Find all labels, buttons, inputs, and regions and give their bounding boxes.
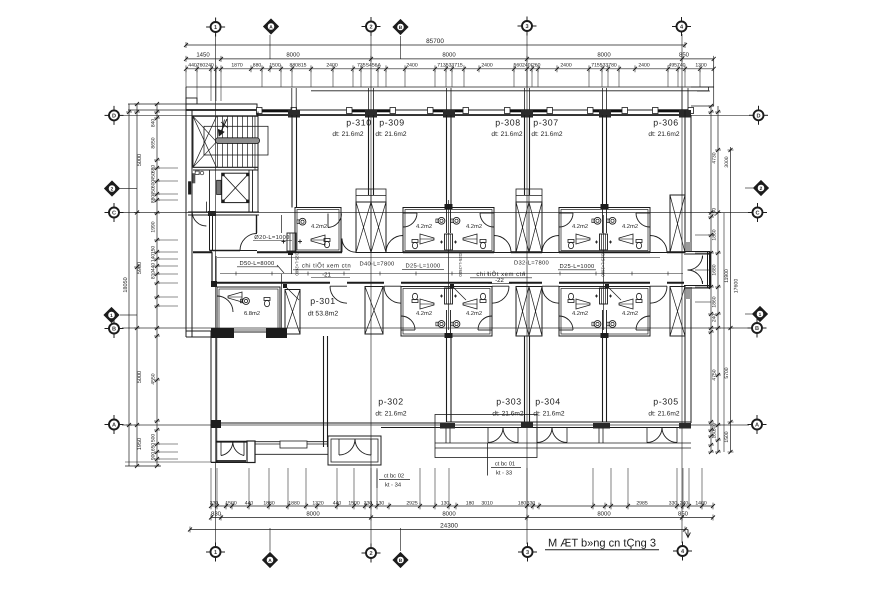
svg-text:2400: 2400 xyxy=(326,63,337,69)
svg-text:1990: 1990 xyxy=(151,221,157,232)
svg-text:1880: 1880 xyxy=(288,500,299,506)
grid bubble C left xyxy=(109,208,119,218)
corridor pipe run line upper xyxy=(217,257,660,259)
svg-text:D32-L=7800: D32-L=7800 xyxy=(514,260,549,267)
top exterior wall outer line xyxy=(186,104,691,110)
duct shaft top at grid 3 xyxy=(516,202,542,253)
svg-text:chi tiÕt xem ctn: chi tiÕt xem ctn xyxy=(476,270,525,278)
svg-text:2925: 2925 xyxy=(406,500,417,506)
svg-text:B: B xyxy=(112,327,116,333)
party wall stubs above top wall xyxy=(291,88,293,110)
grid line axis B vertical xyxy=(400,36,402,59)
dimension line right inner chain xyxy=(710,106,712,452)
svg-text:C: C xyxy=(755,211,759,217)
svg-text:A: A xyxy=(269,24,273,30)
door jamb above p-301 hall door xyxy=(256,215,258,233)
pipe stub top pair 2 xyxy=(601,204,609,209)
svg-text:240: 240 xyxy=(712,208,718,217)
vertical pipe riser at x448.5 xyxy=(448,200,450,330)
bathroom 6.8m2 toilet xyxy=(264,298,270,301)
corridor pipe run line xyxy=(220,273,683,275)
french door p-303 bottom xyxy=(488,428,503,443)
dimension line right middle chain xyxy=(717,106,719,452)
svg-text:dt: 21.6m2: dt: 21.6m2 xyxy=(375,411,406,418)
svg-text:8000: 8000 xyxy=(442,52,456,59)
bathroom p-310 door arc xyxy=(328,214,342,228)
svg-text:4550: 4550 xyxy=(151,373,157,384)
svg-text:p-303: p-303 xyxy=(496,397,522,407)
bathroom p-302b toilet xyxy=(412,300,418,303)
svg-text:dt: 21.6m2: dt: 21.6m2 xyxy=(332,131,363,138)
svg-text:2400: 2400 xyxy=(481,63,492,69)
center balcony box xyxy=(328,436,381,465)
dimension line left outer 18050 xyxy=(128,104,130,466)
grid line axis A vertical xyxy=(269,35,271,59)
grid bubble 2 right diamond xyxy=(754,181,769,196)
svg-text:D: D xyxy=(112,113,116,119)
svg-text:330: 330 xyxy=(669,500,678,506)
stair outer box xyxy=(193,116,258,167)
svg-text:kt - 33: kt - 33 xyxy=(496,470,512,477)
svg-text:1320: 1320 xyxy=(312,500,323,506)
bathroom pair p-304/p-305 box xyxy=(559,287,650,337)
riser leader diagonals xyxy=(285,286,299,300)
door arc p-301 hall xyxy=(240,234,257,251)
bathroom p-308 shower tray xyxy=(463,234,477,244)
black wall patch left of lobby xyxy=(188,181,191,194)
svg-text:140: 140 xyxy=(151,254,157,263)
elevator door xyxy=(217,180,222,194)
bathroom p-305 toilet xyxy=(636,300,642,303)
bathroom 6.8m2 box xyxy=(217,287,280,332)
elevator shaft walls xyxy=(209,170,211,212)
svg-text:240: 240 xyxy=(680,500,689,506)
door arc p-309 entry xyxy=(386,236,403,253)
svg-text:715533780: 715533780 xyxy=(591,63,617,69)
extension drop lines bottom xyxy=(210,468,212,505)
bathroom p-305 shower tray xyxy=(619,299,633,309)
grid bubble 3 top xyxy=(522,21,532,31)
svg-text:240: 240 xyxy=(712,314,718,323)
grid bubble B top xyxy=(393,20,408,35)
svg-text:D: D xyxy=(756,113,760,119)
svg-text:1: 1 xyxy=(110,313,113,319)
svg-text:3000: 3000 xyxy=(724,156,730,167)
dimension line top overall 85700 xyxy=(186,44,685,46)
dimension line right extra xyxy=(723,213,725,452)
right exterior wall xyxy=(684,110,686,252)
bathroom pair 4 center wall xyxy=(602,310,604,336)
svg-text:1870: 1870 xyxy=(231,63,242,69)
svg-text:p-306: p-306 xyxy=(653,118,679,128)
bathroom p-310 shower tray xyxy=(311,235,325,245)
svg-text:dt: 21.6m2: dt: 21.6m2 xyxy=(533,411,564,418)
svg-text:8000: 8000 xyxy=(597,52,611,59)
stair lobby fixtures xyxy=(195,171,199,174)
svg-text:6.8m2: 6.8m2 xyxy=(244,310,260,317)
vestibule bottom wall xyxy=(684,285,710,287)
svg-text:M ÆT b»ng cn tÇng 3: M ÆT b»ng cn tÇng 3 xyxy=(548,538,656,550)
bathroom p-302b shower tray xyxy=(420,299,434,309)
bathroom p-303 door arc xyxy=(478,316,492,330)
right wall jamb hatch upper xyxy=(686,242,691,252)
party wall p-304/p-305 x605 xyxy=(602,336,604,422)
svg-text:ct bc 01: ct bc 01 xyxy=(495,461,515,468)
stair treads xyxy=(217,116,219,167)
door arc p-304 entry xyxy=(542,286,559,303)
bathroom p-306 toilet xyxy=(636,240,642,243)
bathroom p-310 toilet xyxy=(324,239,330,242)
svg-text:1: 1 xyxy=(214,25,217,31)
svg-text:713533715: 713533715 xyxy=(437,63,463,69)
svg-text:850: 850 xyxy=(679,52,690,59)
grid stem diamond 2 left xyxy=(120,188,137,190)
wall below elevator lobby xyxy=(188,211,259,213)
stair inner flight rect xyxy=(204,126,268,155)
bathroom pair p-307/p-306 box xyxy=(559,208,650,253)
svg-text:kt - 34: kt - 34 xyxy=(385,482,402,489)
callout detail rect for balcony xyxy=(435,415,537,458)
grid bubble A left xyxy=(109,420,119,430)
svg-text:1500: 1500 xyxy=(225,500,236,506)
svg-text:4.2m2: 4.2m2 xyxy=(311,223,327,230)
bathroom p-304 washbasin xyxy=(594,321,601,328)
bathroom 6.8m2 door arc xyxy=(217,296,233,312)
vestibule top wall xyxy=(684,251,710,253)
svg-text:A: A xyxy=(112,423,116,429)
bathroom p-306 washbasin xyxy=(609,217,616,224)
grid line axis A-row horizontal xyxy=(122,424,749,426)
french door p-305 bottom xyxy=(647,428,662,443)
wall stub grid3 bottom block xyxy=(521,422,533,429)
svg-text:880815: 880815 xyxy=(290,63,307,69)
door arc p-307 entry xyxy=(542,236,559,253)
dimension line bottom overall 24300 xyxy=(190,529,688,531)
svg-text:735S456A: 735S456A xyxy=(357,63,381,69)
duct shaft top at grid 2 xyxy=(356,202,386,253)
dimension line bottom spans 8000 xyxy=(211,517,713,519)
svg-text:1860: 1860 xyxy=(712,229,718,240)
grid bubble A right xyxy=(752,420,762,430)
bathroom pair p-302/p-303 box xyxy=(401,287,492,337)
svg-text:5900: 5900 xyxy=(137,262,143,274)
svg-text:450: 450 xyxy=(151,187,157,196)
party wall p-301/p-302 x326 xyxy=(323,336,325,447)
grid bubble 1 bottom xyxy=(211,547,221,557)
svg-text:A: A xyxy=(268,558,272,564)
right wall jamb hatch lower xyxy=(686,287,691,299)
bathroom p-307 washbasin xyxy=(594,217,601,224)
stair lobby door leaf xyxy=(193,173,196,183)
grid bubble D left xyxy=(109,110,119,120)
grid bubble 1 right diamond xyxy=(753,307,768,322)
svg-text:dt: 21.6m2: dt: 21.6m2 xyxy=(492,411,523,418)
svg-text:Ø20-L=1000: Ø20-L=1000 xyxy=(254,234,289,241)
svg-text:18050: 18050 xyxy=(123,277,129,292)
svg-text:D50-L=8000: D50-L=8000 xyxy=(239,260,274,267)
balcony rail strip mid-left xyxy=(255,441,328,443)
grid line axis C horizontal xyxy=(122,212,750,214)
svg-text:p-308: p-308 xyxy=(495,118,521,128)
top wall windows with jambs xyxy=(262,109,291,112)
svg-text:850: 850 xyxy=(678,510,689,517)
svg-text:A: A xyxy=(755,423,759,429)
wall stub T1 bottom xyxy=(440,423,455,429)
svg-text:1950: 1950 xyxy=(137,438,143,450)
bathroom p-303 shower tray xyxy=(463,299,477,309)
bathroom p-305 washbasin xyxy=(609,321,616,328)
svg-text:3010: 3010 xyxy=(481,500,492,506)
bathroom p-307 door arc xyxy=(559,213,573,227)
svg-text:3: 3 xyxy=(525,24,528,30)
vestibule right wall xyxy=(707,252,709,289)
bathroom 6.8m2 shower tray xyxy=(228,292,242,302)
svg-text:330: 330 xyxy=(527,500,536,506)
svg-text:440760240: 440760240 xyxy=(188,63,214,69)
svg-text:880: 880 xyxy=(151,165,157,174)
svg-text:1500: 1500 xyxy=(724,431,730,442)
vertical pipe riser at x281.5 xyxy=(281,215,283,233)
bathroom 6.8m2 washbasin xyxy=(243,298,250,305)
svg-text:4730: 4730 xyxy=(712,152,718,163)
bathroom p-304 shower tray xyxy=(576,299,590,309)
dimension line top spans 1450/8000 xyxy=(186,58,714,60)
svg-text:p-305: p-305 xyxy=(653,397,679,407)
party wall p-309/p-308 x449 xyxy=(446,115,448,208)
svg-text:4.2m2: 4.2m2 xyxy=(466,223,482,230)
party wall p-307/p-306 x605 xyxy=(602,115,604,208)
door arc p-308 entry xyxy=(494,236,511,253)
svg-text:450: 450 xyxy=(151,172,157,181)
extension stub lines right xyxy=(695,234,711,236)
svg-text:2400: 2400 xyxy=(560,63,571,69)
bathroom p-302b washbasin xyxy=(438,321,445,328)
grid bubble 3 bottom xyxy=(523,547,533,557)
grid stem diamond 1 left xyxy=(120,314,137,316)
svg-text:B: B xyxy=(399,558,403,564)
hall wall left of p-301 upper xyxy=(209,215,211,251)
duct shaft bottom at right wall xyxy=(670,287,685,337)
svg-text:D40-L=7800: D40-L=7800 xyxy=(359,261,394,268)
svg-text:1680: 1680 xyxy=(712,264,718,275)
svg-text:D25-L=1000: D25-L=1000 xyxy=(559,263,594,270)
canopy overhang line xyxy=(186,86,714,88)
svg-text:1860: 1860 xyxy=(712,296,718,307)
bathroom p-308 toilet xyxy=(480,240,486,243)
svg-text:130: 130 xyxy=(441,500,450,506)
riser at bottom pair grid2-3 xyxy=(445,288,453,304)
svg-text:ct bc 02: ct bc 02 xyxy=(384,473,404,480)
svg-text:1400: 1400 xyxy=(695,500,706,506)
svg-text:5000: 5000 xyxy=(137,154,143,166)
top wall column blocks xyxy=(288,110,300,118)
pipe stub bottom pair 1 xyxy=(445,333,453,338)
svg-text:180: 180 xyxy=(712,430,718,439)
stair lobby door arc xyxy=(192,212,206,226)
wall below stair xyxy=(193,166,258,168)
left balcony box xyxy=(211,462,255,464)
bathroom p-303 toilet xyxy=(480,300,486,303)
svg-text:180: 180 xyxy=(466,500,475,506)
grid line axis 3 vertical xyxy=(526,34,528,544)
left balcony french door xyxy=(221,442,233,456)
bathroom p-306 shower tray xyxy=(619,234,633,244)
svg-text:500: 500 xyxy=(151,434,157,443)
elevator car with X-cross xyxy=(222,173,249,202)
top exterior wall inner line xyxy=(186,110,691,115)
svg-text:180: 180 xyxy=(518,500,527,506)
left wall step at y330 xyxy=(186,330,217,332)
svg-text:650: 650 xyxy=(151,443,157,452)
svg-text:2: 2 xyxy=(760,186,763,192)
duct shaft bottom at grid 2 xyxy=(365,287,383,335)
svg-text:2400: 2400 xyxy=(638,63,649,69)
party wall p-303/p-304 x527 xyxy=(524,336,526,422)
extension corner top-right xyxy=(713,59,715,106)
door arc p-305 entry xyxy=(650,286,667,303)
duct shaft bottom at grid 3 xyxy=(516,287,542,337)
bathroom p-310 washbasin xyxy=(299,218,306,225)
bathroom 6.8m2 hatched wall right xyxy=(266,328,287,338)
grid bubble B left xyxy=(109,324,119,334)
svg-text:17600: 17600 xyxy=(734,279,740,294)
pipe stub bottom pair 2 xyxy=(601,333,609,338)
wall left edge of 6.8 room upper xyxy=(211,252,213,287)
door arc p-310 entry xyxy=(342,239,356,253)
bathroom pair center wall xyxy=(446,208,448,234)
svg-text:3: 3 xyxy=(526,550,529,556)
svg-text:D25-L=2600: D25-L=2600 xyxy=(458,253,463,277)
bathroom p-304 toilet xyxy=(568,300,574,303)
svg-text:2: 2 xyxy=(369,551,372,557)
extension line top-left to wall xyxy=(128,103,186,105)
bathroom p-303 washbasin xyxy=(453,321,460,328)
vestibule double door leaf bottom xyxy=(688,270,703,284)
svg-text:p-309: p-309 xyxy=(379,118,405,128)
wall corner block bottom-left xyxy=(211,420,221,428)
svg-text:p-304: p-304 xyxy=(535,397,561,407)
wall junction block corridor left xyxy=(211,281,217,287)
svg-text:dt: 21.6m2: dt: 21.6m2 xyxy=(491,131,522,138)
svg-text:5000: 5000 xyxy=(137,371,143,383)
svg-text:8000: 8000 xyxy=(442,510,456,517)
dimension line bottom detail chain xyxy=(211,505,713,507)
svg-text:4.2m2: 4.2m2 xyxy=(622,223,638,230)
svg-text:830: 830 xyxy=(211,510,222,517)
svg-text:p-301: p-301 xyxy=(310,296,336,306)
svg-text:8000: 8000 xyxy=(306,510,320,517)
bathroom 6.8m2 hatched wall left xyxy=(211,328,234,338)
grid stem diamond 2 right xyxy=(745,187,753,189)
bathroom p-310 box 4.2m2 xyxy=(295,208,341,253)
bathroom p-307 shower tray xyxy=(576,234,590,244)
svg-text:dt: 21.6m2: dt: 21.6m2 xyxy=(648,131,679,138)
dimension line top detail chain xyxy=(186,68,714,70)
left balcony pillar xyxy=(247,441,255,463)
svg-text:D25-L=2600: D25-L=2600 xyxy=(601,253,606,277)
svg-text:D25-L=2600: D25-L=2600 xyxy=(295,252,300,276)
svg-text:C: C xyxy=(112,211,116,217)
extension drop lines top xyxy=(185,70,187,101)
svg-text:2: 2 xyxy=(369,25,372,31)
vestibule double door leaf top xyxy=(688,256,703,271)
svg-text:4.2m2: 4.2m2 xyxy=(416,223,432,230)
grid bubble 4 bottom xyxy=(678,546,688,556)
grid bubble B right xyxy=(752,323,762,333)
svg-text:840: 840 xyxy=(151,119,157,128)
svg-text:1500: 1500 xyxy=(269,63,280,69)
bathroom p-307 toilet xyxy=(568,240,574,243)
svg-text:B: B xyxy=(755,326,759,332)
center balcony french door xyxy=(339,439,355,455)
dimension line right outer chain xyxy=(730,147,732,452)
svg-text:880: 880 xyxy=(253,63,262,69)
svg-text:8000: 8000 xyxy=(286,52,300,59)
svg-text:600: 600 xyxy=(151,180,157,189)
svg-text:4750: 4750 xyxy=(712,369,718,380)
svg-text:dt: 21.6m2: dt: 21.6m2 xyxy=(648,411,679,418)
svg-text:1: 1 xyxy=(214,550,217,556)
svg-text:8650: 8650 xyxy=(151,137,157,148)
svg-text:p-310: p-310 xyxy=(346,118,372,128)
wall stub T2 bottom xyxy=(593,423,610,429)
balcony rail line right portion xyxy=(435,442,691,444)
party wall p-310/p-309 x371 xyxy=(368,115,370,195)
extension stub lines left xyxy=(157,167,178,169)
svg-text:1: 1 xyxy=(759,312,762,318)
grid bubble A bottom xyxy=(263,553,278,568)
arrow bottom-right of 24300 line xyxy=(686,530,691,538)
dimension line left middle chain xyxy=(136,104,138,466)
grid bubble 2 top xyxy=(366,22,376,32)
wall stub grid4 bottom xyxy=(679,423,691,429)
bathroom p-305 door arc xyxy=(636,316,650,330)
party wall p-310 left x294 xyxy=(291,115,293,208)
svg-text:dt: 21.6m2: dt: 21.6m2 xyxy=(531,131,562,138)
riser at bottom pair grid3-4 xyxy=(600,288,608,304)
grid bubble 1 top xyxy=(211,22,221,32)
bathroom pair 2 center wall xyxy=(602,208,604,234)
title underline xyxy=(545,549,659,551)
grid line axis 2 vertical xyxy=(370,35,372,544)
wall junction block at lobby xyxy=(208,211,216,216)
grid line axis B-row horizontal xyxy=(122,327,749,329)
grid bubble A top xyxy=(264,19,279,34)
grid line axis 4 vertical xyxy=(681,34,683,543)
svg-text:D25-L=1000: D25-L=1000 xyxy=(405,262,440,269)
svg-text:900: 900 xyxy=(151,452,157,461)
svg-text:880: 880 xyxy=(151,195,157,204)
svg-text:4.2m2: 4.2m2 xyxy=(572,223,588,230)
svg-text:11900: 11900 xyxy=(724,269,730,283)
grid bubble 2 bottom xyxy=(366,548,376,558)
door arc p-302 entry xyxy=(384,286,401,303)
grid bubble B bottom xyxy=(393,553,408,568)
door arc p-303 entry xyxy=(492,286,509,303)
bottom exterior wall xyxy=(211,422,446,424)
svg-text:495740: 495740 xyxy=(669,63,686,69)
stair handrail xyxy=(216,138,260,144)
bathroom p-309 washbasin xyxy=(438,217,445,224)
svg-text:5700: 5700 xyxy=(724,367,730,378)
bathroom pair 3 center wall xyxy=(446,310,448,336)
bathroom p-309 shower tray xyxy=(420,234,434,244)
svg-text:p-302: p-302 xyxy=(378,397,404,407)
top-left parapet jog xyxy=(186,98,197,104)
door arc p-301 entry xyxy=(330,286,347,303)
left exterior wall xyxy=(185,104,187,337)
svg-text:8000: 8000 xyxy=(597,510,611,517)
